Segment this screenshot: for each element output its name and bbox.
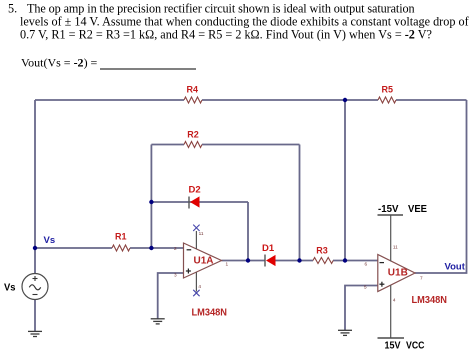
diode D1 <box>262 243 276 267</box>
svg-text:R5: R5 <box>382 85 394 95</box>
wire R3 to U1B inverting input <box>333 260 378 262</box>
svg-text:Vout(Vs = -2) =: Vout(Vs = -2) = <box>21 56 98 70</box>
junction at D2 return on U1A output <box>246 258 250 262</box>
junction at R2 return on rectified node <box>297 258 301 262</box>
svg-text:4: 4 <box>198 284 201 289</box>
svg-text:R2: R2 <box>187 130 199 140</box>
svg-text:VCC: VCC <box>406 341 425 351</box>
no-connect X bottom U1A <box>193 290 199 296</box>
wire U1A noninverting loop <box>158 273 184 319</box>
resistor R2 <box>184 142 202 148</box>
wire R4 R3 junction vertical <box>344 100 346 261</box>
no-connect X top U1A <box>193 225 199 231</box>
svg-text:6: 6 <box>365 262 368 267</box>
svg-text:2: 2 <box>174 246 177 251</box>
wire U1B output to Vout corner <box>415 100 467 273</box>
resistor R5 <box>378 97 396 103</box>
resistor R1 <box>112 245 130 251</box>
wire top rail left of R4 <box>35 99 184 101</box>
source Vs <box>22 274 48 300</box>
svg-text:U1A: U1A <box>194 256 214 267</box>
svg-text:LM348N: LM348N <box>192 308 228 319</box>
svg-text:3: 3 <box>174 273 177 278</box>
svg-text:LM348N: LM348N <box>412 295 448 306</box>
resistor R3 <box>313 258 333 264</box>
problem text <box>8 2 470 70</box>
svg-text:Vout: Vout <box>445 262 466 273</box>
svg-text:R4: R4 <box>187 85 199 95</box>
ground U1A plus input <box>151 319 165 324</box>
ground source <box>28 331 42 336</box>
VEE power bar <box>378 214 404 216</box>
svg-text:levels of ± 14 V. Assume that: levels of ± 14 V. Assume that when condu… <box>20 15 470 29</box>
svg-text:D1: D1 <box>262 243 275 254</box>
wire D2 row <box>151 201 248 203</box>
resistor R4 <box>184 97 202 103</box>
svg-text:The op amp in the precision re: The op amp in the precision rectifier ci… <box>27 2 415 16</box>
svg-text:15V: 15V <box>385 341 401 351</box>
wire U1A output run <box>222 260 266 262</box>
junction at R4 R5 top rail <box>343 98 347 102</box>
wire R2 right vertical <box>299 145 301 261</box>
svg-text:Vs: Vs <box>44 235 56 246</box>
wire top rail right of R5 <box>396 99 467 101</box>
svg-text:4: 4 <box>393 298 396 303</box>
op-amp U1A <box>184 231 222 292</box>
svg-text:5.: 5. <box>8 2 17 16</box>
svg-text:Vs: Vs <box>4 283 16 294</box>
answer blank underline <box>100 68 196 70</box>
op-amp U1B <box>378 215 415 338</box>
VCC power bar <box>378 337 405 339</box>
wire U1B noninverting loop <box>345 286 378 331</box>
ground U1B plus input <box>338 330 352 335</box>
wire R1 to U1A inverting input <box>130 247 184 249</box>
svg-text:11: 11 <box>393 245 398 250</box>
junction at Vs node <box>33 246 37 250</box>
svg-text:11: 11 <box>199 231 204 236</box>
wire top rail R4 to R5 <box>202 99 378 101</box>
wire R2 row <box>151 144 184 146</box>
wire R2 right <box>202 144 300 146</box>
svg-text:D2: D2 <box>189 185 201 196</box>
svg-text:U1B: U1B <box>388 268 408 279</box>
svg-text:7: 7 <box>420 276 423 281</box>
svg-text:1: 1 <box>226 262 229 267</box>
wire main input run <box>35 247 112 249</box>
wire R2 left vertical <box>150 145 152 249</box>
wire D1 to R3 <box>275 260 314 262</box>
svg-text:5: 5 <box>364 285 367 290</box>
wire source to ground <box>34 299 36 331</box>
svg-text:R1: R1 <box>115 232 127 242</box>
junction at U1B inverting input node <box>343 258 347 262</box>
svg-text:VEE: VEE <box>408 204 427 215</box>
wire D2 right vertical <box>247 202 249 261</box>
svg-text:0.7 V, R1 = R2 = R3 =1 kΩ, and: 0.7 V, R1 = R2 = R3 =1 kΩ, and R4 = R5 =… <box>20 28 432 42</box>
svg-text:R3: R3 <box>316 246 328 256</box>
wire left vertical <box>34 100 36 274</box>
diode D2 <box>189 185 201 209</box>
junction at U1A inverting input node <box>149 246 153 250</box>
junction at D2 left branch <box>149 200 153 204</box>
svg-text:-15V: -15V <box>378 204 399 215</box>
